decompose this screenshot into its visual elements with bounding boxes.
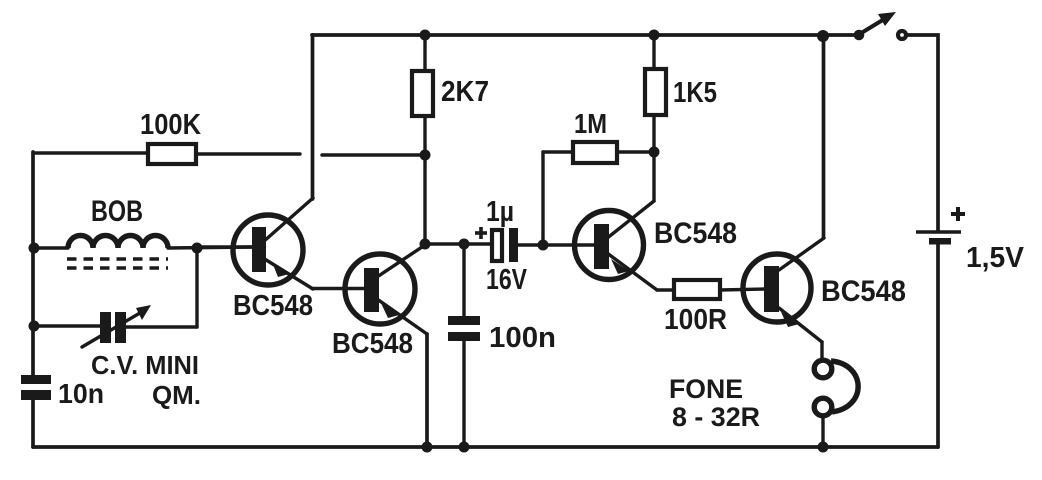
- svg-text:100R: 100R: [664, 304, 727, 336]
- label 1u: [486, 196, 514, 228]
- label 1K5: [673, 77, 717, 109]
- transistor Q1 BC548: [197, 198, 313, 289]
- label 100n: [489, 322, 556, 354]
- label plus 1u: [475, 227, 487, 239]
- label 8-32R: [672, 402, 760, 432]
- svg-text:16V: 16V: [486, 264, 528, 296]
- label plus battery: [951, 207, 965, 221]
- node: 2K7 bottom 100K junction: [420, 150, 431, 161]
- label 100R: [664, 304, 727, 336]
- label BC548 Q2: [332, 328, 413, 360]
- capacitor CV variable tuning: [33, 248, 197, 347]
- svg-text:10n: 10n: [58, 378, 104, 409]
- svg-text:1M: 1M: [574, 108, 607, 139]
- svg-text:100K: 100K: [140, 109, 201, 141]
- svg-text:BC548: BC548: [654, 217, 737, 250]
- svg-text:FONE: FONE: [669, 374, 743, 404]
- svg-text:1K5: 1K5: [673, 77, 717, 109]
- svg-text:QM.: QM.: [152, 380, 201, 410]
- label FONE: [669, 374, 743, 404]
- wire: V+ top rail: [312, 33, 858, 37]
- node: CV left junction: [29, 321, 40, 332]
- transistor Q2 BC548: [345, 245, 427, 334]
- svg-text:C.V. MINI: C.V. MINI: [91, 350, 199, 380]
- battery B1 1.5V: [916, 232, 961, 245]
- svg-text:100n: 100n: [489, 322, 556, 354]
- svg-text:1,5V: 1,5V: [966, 242, 1025, 274]
- wire: left vertical antenna branch: [31, 152, 35, 375]
- svg-text:8 - 32R: 8 - 32R: [672, 402, 760, 432]
- label 1M: [574, 108, 607, 139]
- label BC548 Q3: [654, 217, 737, 250]
- label BC548 Q1: [233, 290, 313, 322]
- wire: Q2 emitter to ground: [425, 334, 429, 447]
- wire: switch to battery top: [906, 35, 938, 230]
- resistor R2 2K7: [412, 35, 433, 244]
- svg-text:BC548: BC548: [821, 275, 906, 308]
- node: ground 100n junction: [459, 442, 470, 453]
- node: ground earphone junction: [818, 442, 829, 453]
- wire: Q1 collector to top rail: [311, 35, 315, 199]
- node: Q2 collector junction: [420, 239, 431, 250]
- wire: left vertical below 10n: [31, 400, 35, 447]
- wire: collector node to 1u cap: [425, 242, 492, 245]
- label Q.M.: [152, 380, 201, 410]
- label BOB: [91, 195, 143, 228]
- node: 100n top junction: [459, 239, 470, 250]
- resistor R4 1K5: [645, 35, 666, 201]
- label 100K: [140, 109, 201, 141]
- transistor Q4 BC548: [743, 238, 824, 342]
- resistor R5 100R: [657, 280, 764, 299]
- capacitor C2 100n: [448, 244, 480, 447]
- resistor R3 1M: [543, 142, 654, 245]
- svg-text:2K7: 2K7: [441, 76, 489, 108]
- label C.V. MINI: [91, 350, 199, 380]
- node: coil left junction: [29, 243, 40, 254]
- label BC548 Q4: [821, 275, 906, 308]
- label 10n: [58, 378, 104, 409]
- switch S1: [854, 12, 906, 40]
- wire: battery negative down right side: [936, 243, 940, 447]
- capacitor C1 10n: [21, 375, 51, 400]
- svg-text:BC548: BC548: [233, 290, 313, 322]
- svg-text:1µ: 1µ: [486, 196, 514, 228]
- node: top rail 2K7 junction: [420, 30, 431, 41]
- transistor Q3 BC548: [575, 201, 658, 290]
- node: coil right junction: [192, 243, 203, 254]
- node: 1M right 1K5 junction: [649, 147, 660, 158]
- label 1,5V: [966, 242, 1025, 274]
- capacitor C3 1u electrolytic: [492, 228, 594, 262]
- node: top rail Q4 junction: [817, 30, 829, 42]
- node: 1u cap right junction: [538, 240, 549, 251]
- svg-text:BC548: BC548: [332, 328, 413, 360]
- wire: ground bottom rail: [33, 445, 938, 449]
- wire: Q1 emitter to Q2 base: [312, 287, 366, 290]
- label 16V: [486, 264, 528, 296]
- svg-text:BOB: BOB: [91, 195, 143, 228]
- ferrite core dashed lines: [67, 259, 168, 268]
- inductor L1 BOB coil: [33, 236, 253, 249]
- earphone FONE: [814, 342, 858, 447]
- node: top rail 1K5 junction: [649, 30, 660, 41]
- wire: Q4 collector to top rail: [822, 36, 826, 238]
- label 2K7: [441, 76, 489, 108]
- node: ground Q2 emitter junction: [422, 442, 433, 453]
- resistor R1 100K: [33, 144, 425, 164]
